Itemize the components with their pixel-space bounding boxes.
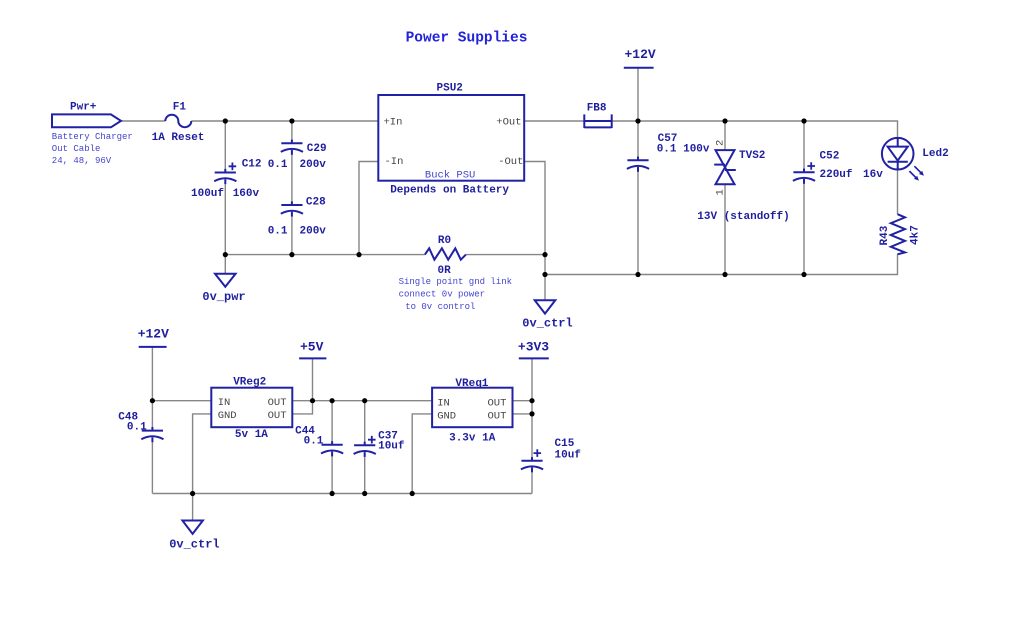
svg-text:0.1 100v: 0.1 100v	[657, 144, 710, 156]
svg-text:0.1: 0.1	[268, 159, 288, 171]
svg-text:2: 2	[715, 140, 727, 146]
svg-text:PSU2: PSU2	[437, 83, 463, 95]
svg-text:10uf: 10uf	[555, 449, 582, 461]
svg-text:+5V: +5V	[300, 340, 324, 355]
svg-text:R43: R43	[879, 225, 891, 245]
svg-text:C12: C12	[242, 158, 262, 170]
svg-text:-In: -In	[385, 156, 404, 168]
svg-text:4k7: 4k7	[910, 225, 922, 245]
svg-text:24, 48, 96V: 24, 48, 96V	[52, 156, 112, 166]
svg-text:connect 0v power: connect 0v power	[399, 290, 485, 300]
svg-text:+12V: +12V	[138, 327, 169, 342]
svg-text:C29: C29	[307, 143, 327, 155]
svg-text:0.1: 0.1	[304, 436, 324, 448]
svg-text:Power Supplies: Power Supplies	[406, 31, 528, 47]
svg-text:C52: C52	[820, 151, 840, 163]
svg-text:1A Reset: 1A Reset	[152, 132, 205, 144]
svg-text:C15: C15	[555, 438, 575, 450]
svg-text:OUT: OUT	[488, 398, 507, 410]
svg-text:OUT: OUT	[268, 410, 287, 422]
svg-text:C28: C28	[306, 197, 326, 209]
svg-text:VReg1: VReg1	[455, 378, 488, 390]
svg-text:FB8: FB8	[587, 102, 607, 114]
svg-text:10uf: 10uf	[378, 440, 405, 452]
svg-text:1: 1	[715, 189, 727, 195]
svg-text:Pwr+: Pwr+	[70, 101, 97, 113]
svg-text:0v_ctrl: 0v_ctrl	[522, 316, 572, 330]
svg-text:0.1: 0.1	[268, 226, 288, 238]
svg-text:to 0v control: to 0v control	[405, 302, 475, 312]
svg-text:R0: R0	[438, 235, 451, 247]
svg-text:+Out: +Out	[496, 117, 521, 129]
svg-text:IN: IN	[437, 398, 450, 410]
svg-text:200v: 200v	[300, 226, 327, 238]
svg-text:Depends on Battery: Depends on Battery	[390, 185, 509, 197]
svg-text:16v: 16v	[863, 169, 883, 181]
svg-text:Battery Charger: Battery Charger	[52, 132, 133, 142]
svg-text:+3V3: +3V3	[518, 340, 549, 355]
svg-text:220uf: 220uf	[820, 169, 853, 181]
svg-text:IN: IN	[218, 397, 231, 409]
svg-text:-Out: -Out	[498, 156, 523, 168]
svg-text:0R: 0R	[438, 265, 452, 277]
svg-text:TVS2: TVS2	[739, 150, 765, 162]
svg-text:Out Cable: Out Cable	[52, 144, 101, 154]
svg-text:+In: +In	[384, 117, 403, 129]
svg-text:OUT: OUT	[488, 410, 507, 422]
svg-text:Buck PSU: Buck PSU	[425, 170, 475, 182]
svg-text:200v: 200v	[300, 159, 327, 171]
svg-text:OUT: OUT	[268, 397, 287, 409]
svg-text:GND: GND	[437, 410, 456, 422]
svg-text:0.1: 0.1	[127, 421, 147, 433]
svg-text:3.3v 1A: 3.3v 1A	[449, 433, 496, 445]
svg-text:5v 1A: 5v 1A	[235, 429, 268, 441]
svg-text:160v: 160v	[233, 188, 260, 200]
svg-text:GND: GND	[218, 410, 237, 422]
svg-text:VReg2: VReg2	[233, 376, 266, 388]
svg-text:Single point gnd link: Single point gnd link	[399, 277, 512, 287]
svg-text:0v_pwr: 0v_pwr	[202, 290, 245, 304]
svg-text:Led2: Led2	[922, 148, 948, 160]
svg-text:100uf: 100uf	[191, 188, 224, 200]
svg-text:0v_ctrl: 0v_ctrl	[169, 538, 219, 552]
svg-text:F1: F1	[173, 101, 187, 113]
svg-text:+12V: +12V	[625, 47, 656, 62]
svg-text:13V (standoff): 13V (standoff)	[697, 211, 789, 223]
